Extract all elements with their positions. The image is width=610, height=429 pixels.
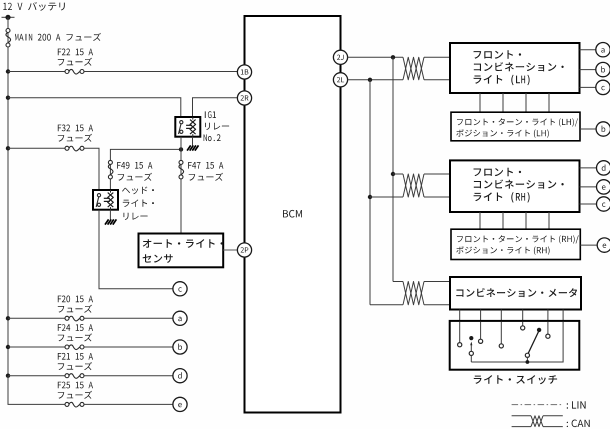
label F22 15 A [58, 49, 93, 56]
label headlight relay line3 [124, 213, 148, 220]
wire braid to meter bottom [424, 304, 450, 306]
junction RH top [391, 172, 395, 176]
fuse F49 15A [108, 160, 112, 164]
label LH line2 [474, 62, 564, 71]
wire 2L out [348, 79, 403, 81]
twisted pair CAN to meter [403, 282, 424, 305]
legend CAN label [567, 420, 590, 428]
wire braid to LH box top [424, 56, 450, 58]
terminal t2 [479, 339, 483, 343]
wire IG1 output down through F47 [180, 137, 182, 234]
fuse MAIN 200A [6, 29, 10, 33]
legend CAN lines [512, 415, 531, 417]
label F47 15 A [188, 162, 223, 169]
label F20 15 A [58, 296, 93, 303]
label F24 fuse kana [58, 333, 92, 341]
wire RH to node d [580, 167, 597, 169]
label IG1 relay kana [205, 123, 229, 130]
wire LH to node a [580, 49, 596, 51]
label sensor line1 [143, 239, 223, 248]
label LH line1 [474, 50, 521, 59]
switch contact A pivot [469, 336, 473, 340]
label F32 fuse kana [58, 134, 92, 142]
junction battery-F20 [6, 316, 10, 320]
ground IG1 relay coil [187, 145, 191, 150]
label light switch [474, 375, 557, 384]
wire F25 to node e [84, 403, 173, 405]
wire F20 feed [8, 317, 65, 319]
box front combination light LH [450, 43, 580, 93]
wire IG1 coil to BCM 2R [193, 98, 238, 117]
label LH line3 [474, 75, 530, 86]
node d right [597, 161, 610, 175]
node c connector [173, 282, 187, 296]
wire braid to RH box bottom [424, 196, 450, 198]
legend CAN braid [531, 416, 543, 427]
box front turn/position light RH [451, 229, 580, 259]
wire RH feed bottom [370, 196, 403, 198]
wire t1 inner [459, 322, 461, 343]
wire braid to LH box bottom [424, 79, 450, 81]
pin 2J [333, 50, 347, 64]
terminal t5 [546, 334, 550, 338]
twisted pair CAN to RH light [403, 174, 424, 197]
box BCM [245, 16, 341, 413]
wire F24 to node b [84, 346, 173, 348]
wire CAN bus vertical B [369, 80, 371, 305]
wire contact A to common [470, 356, 472, 363]
wire t5 inner [547, 322, 549, 334]
wire F32 to headlight relay switch [84, 148, 99, 190]
wire RH to node c [580, 203, 597, 205]
wire RH internal 2 [502, 212, 504, 229]
wire t3 inner [500, 322, 502, 344]
node a connector [173, 311, 187, 325]
label RH line3 [474, 192, 530, 203]
junction 2J branch [391, 55, 395, 59]
junction battery-F22 [6, 69, 10, 73]
node b connector [173, 340, 187, 354]
node b right [596, 62, 610, 76]
label RH line1 [474, 168, 521, 177]
wire LH internal 3 [525, 93, 527, 112]
wire RH internal 4 [548, 212, 550, 229]
wire F22 to BCM 1B [84, 71, 237, 73]
wire LH turn to node b [580, 128, 596, 130]
label F21 15 A [58, 353, 93, 360]
label sensor line2 [143, 254, 173, 263]
box light switch [450, 321, 580, 370]
wire F21 to node d [84, 375, 173, 377]
junction 2L branch [368, 78, 372, 82]
terminal t4 [521, 326, 525, 330]
label RH turn line1 [457, 235, 579, 243]
label F25 15 A [58, 382, 93, 389]
wire battery to IG1 switch [8, 98, 181, 117]
node e right [597, 180, 610, 194]
legend LIN label [567, 401, 586, 408]
pin 1B [237, 65, 251, 79]
wire LH internal 4 [548, 93, 550, 112]
wire LH internal 1 [479, 93, 481, 112]
wire battery bus vertical [7, 17, 9, 404]
wire meter to switch t4 [522, 310, 524, 326]
junction RH bottom [368, 195, 372, 199]
fuse F20 15A [65, 316, 69, 320]
label F25 fuse kana [58, 391, 92, 399]
label LH turn line2 [456, 129, 549, 138]
relay U1 IG1 No.2 [175, 117, 200, 137]
label RH line2 [474, 180, 564, 189]
switch contact B lever [528, 332, 538, 354]
wire LH to node b [580, 69, 596, 71]
box combination meter [450, 277, 581, 310]
relay U2 headlight [93, 190, 118, 210]
node 12V battery label [3, 2, 65, 11]
switch contact A arrow [470, 342, 472, 346]
label combination meter [456, 288, 577, 297]
label F24 15 A [58, 324, 93, 331]
terminal t3 [499, 344, 503, 348]
wire headlight relay coil to ground [109, 210, 111, 220]
wire meter to switch t5 [547, 310, 549, 335]
ground headlight relay coil [105, 219, 109, 224]
wire meter to switch t1 [459, 310, 461, 343]
fuse F25 15A [65, 402, 69, 406]
wire contact B to common [526, 357, 528, 362]
label headlight relay line1 [122, 187, 154, 195]
wire F20 to node a [84, 317, 173, 319]
label F22 fuse kana [58, 58, 92, 66]
label F49 fuse kana [118, 173, 152, 181]
wire RH turn to node e [580, 244, 597, 246]
wire RH internal 3 [525, 212, 527, 229]
wire F32 feed left [8, 147, 65, 149]
node d connector [173, 369, 187, 383]
node c2 right [597, 197, 610, 211]
label F21 fuse kana [58, 362, 92, 370]
wire switch common inner [471, 322, 563, 362]
wire IG1 coil to ground [192, 137, 194, 146]
wire CAN bus vertical A [392, 57, 394, 281]
wire RH to node e [580, 186, 597, 188]
pin 2R [237, 91, 251, 105]
fuse F22 15A [65, 70, 69, 74]
fuse F21 15A [65, 374, 69, 378]
wire F22 feed left [8, 71, 65, 73]
box front combination light RH [450, 160, 580, 212]
junction battery-F32 [6, 146, 10, 150]
label MAIN fuse [15, 33, 101, 41]
wire braid to meter top [424, 281, 450, 283]
pin 2P [237, 243, 251, 257]
wire headlight relay output to node c [99, 210, 173, 289]
wire RH feed top [393, 173, 403, 175]
wire RH internal 1 [479, 212, 481, 229]
wire t2 inner [480, 322, 482, 339]
wire meter feed top [393, 281, 403, 283]
wire 2J out [348, 56, 403, 58]
wire meter to switch t2 [480, 310, 482, 340]
node e2 right [597, 238, 610, 252]
junction battery-F21 [6, 374, 10, 378]
wire meter to switch t3 [500, 310, 502, 344]
junction contact B common [526, 360, 530, 364]
label BCM [283, 210, 302, 218]
wire F21 feed [8, 375, 65, 377]
node b2 right [596, 122, 610, 136]
pin 2L [333, 73, 347, 87]
label headlight relay line2 [123, 200, 154, 207]
wire meter to switch common [471, 310, 563, 363]
junction IG1 output node [179, 147, 183, 151]
wire LH internal 2 [502, 93, 504, 112]
wire F24 feed [8, 346, 65, 348]
battery terminal node [2, 16, 15, 18]
wire meter feed bottom [370, 304, 403, 306]
label F32 15 A [58, 125, 93, 132]
legend LIN line [512, 404, 563, 406]
label RH turn line2 [456, 246, 549, 255]
wire F25 feed [8, 376, 65, 405]
junction battery-IG1 [6, 96, 10, 100]
terminal t1 [458, 343, 462, 347]
fuse F24 15A [65, 345, 69, 349]
wire LH to node c [580, 86, 596, 88]
fuse F47 15A [179, 160, 183, 164]
wire braid to RH box top [424, 173, 450, 175]
wire sensor to BCM 2P [223, 249, 237, 251]
node a right [596, 43, 610, 57]
switch contact A terminal [469, 351, 473, 355]
fuse F32 15A [65, 146, 69, 150]
switch contact B terminal [525, 353, 529, 357]
node c right [596, 80, 610, 94]
label IG1 [205, 111, 216, 118]
wire t4 inner [522, 322, 524, 326]
label F20 fuse kana [58, 305, 92, 313]
junction battery-F24 [6, 345, 10, 349]
twisted pair CAN to LH light [403, 57, 424, 80]
label F47 fuse kana [189, 173, 223, 181]
box auto-light sensor [139, 234, 224, 268]
wire IG1 output to F49 branch [110, 149, 181, 190]
label LH turn line1 [457, 118, 578, 126]
box front turn/position light LH [451, 112, 580, 141]
label F49 15 A [117, 162, 152, 169]
label IG1 No.2 [204, 134, 221, 141]
node e connector [173, 397, 187, 411]
switch contact B pivot [537, 328, 541, 332]
